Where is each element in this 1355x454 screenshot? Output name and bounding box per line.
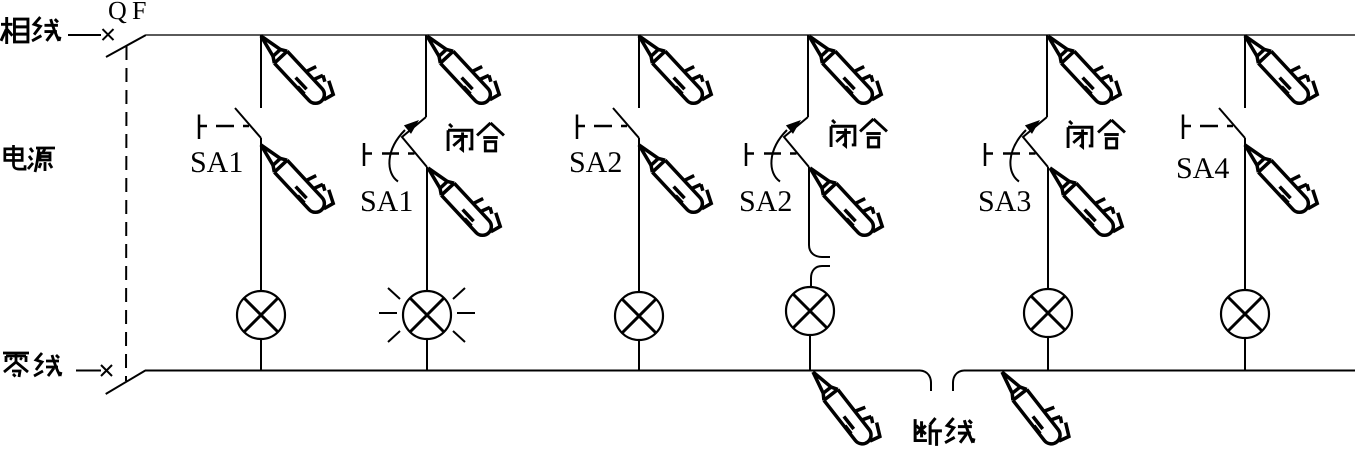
switch SA2 (closed) blade kink — [784, 117, 809, 167]
switch SA4 manual-operation dashed linkage — [1183, 115, 1191, 140]
switch SA3 manual-operation dashed linkage — [985, 143, 993, 166]
broken branch4 wire upper curled end — [809, 245, 830, 257]
switch SA1 closing-motion arc with arrowhead — [389, 130, 405, 182]
svg-text:SA2: SA2 — [569, 146, 622, 179]
switch SA1 manual-operation dashed linkage — [364, 143, 372, 166]
QF mechanical linkage dashed line — [125, 46, 128, 381]
wire: branch3 lower vertical — [638, 138, 640, 292]
test pencil P3 on phase junction 2 — [421, 23, 504, 110]
wire: phase line left stub — [68, 34, 101, 36]
wire: branch1 lower vertical — [260, 138, 262, 291]
lamp EL2 (lit) — [403, 291, 451, 339]
lamp EL6 — [1221, 290, 1269, 338]
label 断线 (broken wire) — [915, 418, 974, 446]
lamp EL1 — [237, 291, 285, 339]
broken neutral wire right curled end — [953, 371, 964, 392]
wire: SA1 branch upper vertical — [425, 35, 427, 117]
lamp EL5 — [1024, 289, 1072, 337]
QF top pole blade (open) — [106, 35, 146, 57]
wire: SA4 branch upper vertical — [1244, 35, 1246, 108]
wire: branch2 to neutral — [426, 339, 428, 371]
test pencil P6 below SA2 — [633, 132, 716, 219]
wire: branch5 to neutral — [1047, 337, 1049, 371]
wire: phase line — [146, 34, 1355, 36]
test pencil P1 on phase junction 1 — [255, 23, 338, 110]
wire: neutral line left section — [145, 370, 920, 372]
label 零线 (neutral line) — [3, 353, 61, 377]
switch SA3 (closed) blade kink — [1023, 117, 1048, 167]
svg-text:Q: Q — [108, 0, 127, 25]
switch SA2 manual-operation dashed linkage — [577, 115, 585, 140]
test pencil P12 on phase junction 6 — [1239, 23, 1322, 110]
svg-text:SA1: SA1 — [360, 185, 413, 218]
switch SA1 (open) blade — [235, 108, 261, 138]
label 闭合 (closed) branch5 — [1068, 120, 1125, 148]
wire: branch5 lower vertical — [1047, 167, 1049, 289]
label 闭合 (closed) branch4 — [831, 119, 887, 147]
test pencil P7 on phase junction 4 — [803, 23, 886, 110]
switch SA2 (open) blade — [613, 108, 639, 138]
switch SA4 (open) blade — [1219, 108, 1245, 138]
wire: branch4 lower vertical (upper piece) — [808, 167, 810, 245]
switch SA3 closing-motion arc with arrowhead — [1010, 130, 1026, 182]
broken branch4 wire lower curled end — [811, 266, 830, 287]
lamp EL4 — [786, 287, 834, 335]
test pencil P8 below SA2 closed — [804, 155, 887, 242]
test pencil P9 on neutral at branch4 — [806, 360, 885, 450]
test pencil P2 below SA1 — [255, 132, 338, 219]
wire: SA2 branch upper vertical — [807, 35, 809, 117]
wire: SA3 branch upper vertical — [1046, 35, 1048, 117]
wire: SA1 branch upper vertical — [260, 35, 262, 108]
test pencil P5 on phase junction 3 — [633, 23, 716, 110]
wire: SA2 branch upper vertical — [638, 35, 640, 108]
test pencil P13 below SA4 — [1239, 132, 1322, 219]
QF top pole fixed contact x — [103, 29, 114, 40]
lamp EL2 light rays — [379, 288, 475, 342]
wire: neutral line right section — [964, 370, 1355, 372]
test pencil P14 on neutral right of break — [995, 360, 1074, 450]
QF bottom pole fixed contact x — [101, 365, 112, 376]
wire: branch3 to neutral — [638, 340, 640, 371]
switch SA2 manual-operation dashed linkage — [746, 143, 754, 166]
svg-text:SA1: SA1 — [190, 146, 243, 179]
broken neutral wire left curled end — [920, 371, 931, 392]
test pencil P10 on phase junction 5 — [1042, 23, 1125, 110]
svg-text:SA4: SA4 — [1176, 152, 1229, 185]
wire: branch1 to neutral — [260, 339, 262, 371]
svg-text:SA2: SA2 — [739, 185, 792, 218]
QF bottom pole blade (open) — [106, 371, 146, 395]
wire: branch6 to neutral — [1244, 338, 1246, 371]
wire: neutral line left stub — [76, 370, 101, 372]
switch SA1 (closed) blade kink — [402, 117, 427, 167]
switch SA1 manual-operation dashed linkage — [199, 115, 207, 140]
label 电源 (power source) — [5, 145, 55, 172]
test pencil P11 below SA3 closed — [1044, 155, 1127, 242]
wire: branch4 to neutral — [809, 335, 811, 371]
label 闭合 (closed) branch2 — [448, 123, 504, 151]
svg-text:F: F — [132, 0, 146, 25]
svg-text:SA3: SA3 — [978, 185, 1031, 218]
lamp EL3 — [615, 292, 663, 340]
wire: branch6 lower vertical — [1244, 138, 1246, 290]
switch SA2 closing-motion arc with arrowhead — [771, 130, 787, 182]
label 相线 (phase line) — [1, 17, 60, 44]
test pencil P4 below SA1 closed — [422, 155, 505, 242]
wire: branch2 lower vertical — [426, 167, 428, 291]
